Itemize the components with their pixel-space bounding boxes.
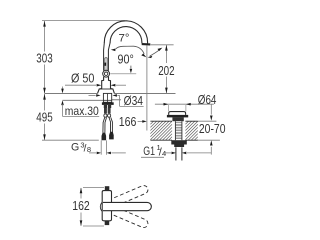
waste plug dome	[169, 112, 186, 115]
wire deck bottom line	[63, 99, 122, 102]
faucet pivot circle inner	[104, 72, 107, 75]
dimension 162 extension lines	[83, 188, 104, 226]
svg-text:Ø64: Ø64	[198, 93, 217, 107]
angle 90 down arrow	[130, 66, 133, 74]
faucet hose connector left	[102, 133, 107, 141]
waste deck hatched right	[185, 121, 197, 140]
waste deck hatched left	[150, 121, 172, 140]
wire deck top line	[45, 92, 176, 94]
faucet handle stick inner lines	[105, 58, 107, 71]
dimension 162 line	[80, 188, 83, 226]
faucet spout arc inner	[110, 27, 142, 44]
waste flange extension lines	[168, 105, 186, 111]
svg-text:G: G	[71, 141, 79, 153]
angle 7 arc with arrows	[148, 48, 163, 59]
svg-text:Ø34: Ø34	[124, 94, 143, 108]
svg-text:7°: 7°	[119, 33, 130, 45]
svg-text:max.30: max.30	[65, 104, 99, 118]
wire deck top extension right	[198, 120, 217, 122]
faucet supply hose right	[109, 118, 112, 133]
faucet pipe left side	[103, 43, 106, 71]
faucet hose connector right	[109, 132, 114, 140]
faucet hose nipples	[104, 108, 111, 117]
waste leader arrow down	[210, 104, 213, 121]
dimension 166 leader	[138, 120, 147, 123]
waste diameter 64 dimension line	[155, 103, 214, 106]
waste plug flange plate	[167, 115, 188, 118]
svg-text:495: 495	[36, 111, 52, 125]
label G 1 1/4	[141, 143, 166, 158]
svg-text:162: 162	[72, 199, 90, 213]
waste body through deck	[175, 121, 182, 140]
label G 3/8	[71, 140, 91, 154]
faucet spout arc outer	[104, 21, 147, 44]
dimension G 1 1/4 leader	[165, 152, 212, 155]
faucet outlet aerator	[142, 43, 151, 46]
faucet pipe right side	[108, 43, 110, 71]
dimension max.30	[61, 87, 99, 117]
top view handle tab bottom	[105, 221, 110, 225]
svg-text:166: 166	[119, 115, 137, 129]
top view pivot ellipse	[100, 202, 108, 212]
dimension 20-70 lower arrow	[210, 140, 213, 154]
top view dashed swivel arm lower	[102, 203, 149, 229]
svg-text:G1: G1	[143, 144, 155, 158]
dimension 495 line	[43, 94, 46, 140]
dimension diameter 34	[89, 94, 144, 106]
svg-text:90°: 90°	[118, 53, 134, 67]
faucet base escutcheon	[98, 89, 115, 94]
svg-text:202: 202	[158, 64, 174, 78]
wire outlet axis line	[146, 45, 148, 130]
faucet handle grip dark blob	[104, 63, 106, 66]
faucet threaded shank	[102, 93, 114, 108]
svg-text:4: 4	[162, 149, 166, 158]
angle 90 leader with arrows	[111, 46, 147, 57]
faucet supply hose left	[103, 118, 107, 133]
waste locknut	[171, 140, 187, 144]
wire deck bottom extension right	[198, 139, 220, 141]
wire pivot axis line	[110, 73, 136, 75]
dimension G 3/8	[89, 140, 126, 154]
top view spout capsule	[103, 202, 151, 210]
top view faucet body	[102, 191, 111, 221]
top view handle tab top	[105, 186, 110, 191]
waste plug seat	[172, 117, 183, 121]
dimension 303 line	[43, 21, 46, 93]
dimension 202 extension line	[151, 44, 174, 46]
faucet pivot circle outer	[103, 70, 110, 77]
svg-text:Ø 50: Ø 50	[71, 72, 94, 86]
wire bottom extension line	[42, 139, 99, 141]
dimension 202 line	[165, 45, 168, 93]
svg-text:8: 8	[87, 145, 91, 154]
dimension diameter 50	[65, 84, 126, 87]
waste tailpipe	[176, 147, 182, 160]
wire top extension line	[42, 20, 125, 22]
svg-text:303: 303	[36, 52, 52, 66]
svg-text:20-70: 20-70	[199, 122, 226, 136]
top view dashed swivel arm upper	[102, 184, 149, 210]
faucet body below pivot	[102, 77, 111, 89]
